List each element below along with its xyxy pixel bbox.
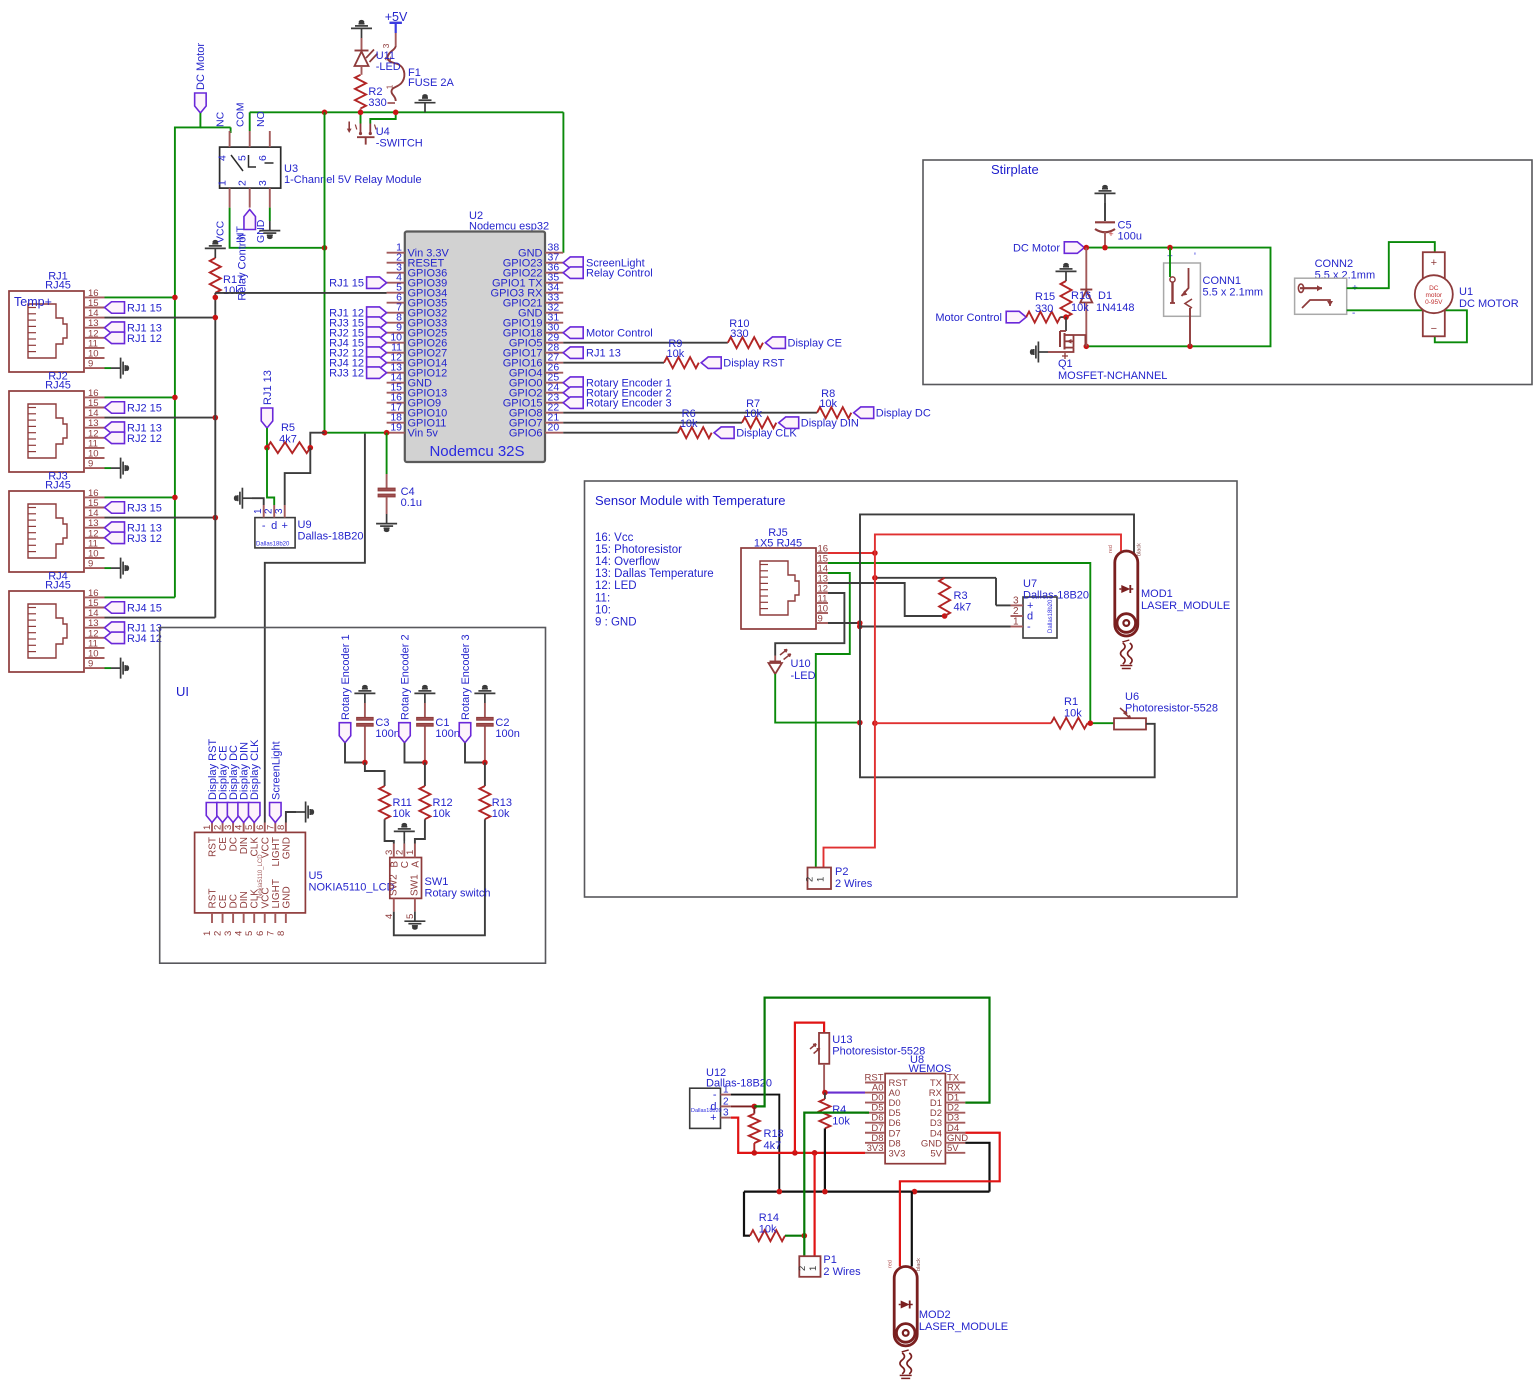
svg-text:2 Wires: 2 Wires bbox=[823, 1266, 861, 1278]
svg-text:U10: U10 bbox=[791, 658, 811, 670]
svg-text:R18: R18 bbox=[764, 1128, 784, 1140]
net label Display CE bbox=[765, 337, 842, 350]
wire bbox=[105, 496, 175, 498]
svg-text:-LED: -LED bbox=[376, 61, 401, 73]
svg-text:10k: 10k bbox=[223, 285, 241, 297]
svg-text:+: + bbox=[1108, 229, 1113, 239]
capacitor C1 bbox=[417, 703, 460, 763]
svg-text:RJ45: RJ45 bbox=[45, 480, 71, 492]
wire bbox=[105, 417, 216, 419]
svg-text:RJ3 15: RJ3 15 bbox=[127, 503, 162, 515]
svg-text:2: 2 bbox=[237, 180, 249, 186]
ground bbox=[296, 802, 313, 823]
svg-text:RJ2 12: RJ2 12 bbox=[127, 433, 162, 445]
svg-text:Display CLK: Display CLK bbox=[736, 428, 797, 440]
svg-text:6: 6 bbox=[257, 155, 269, 161]
net label Display DC bbox=[227, 745, 240, 823]
svg-text:3: 3 bbox=[384, 850, 395, 855]
junction bbox=[777, 1189, 918, 1195]
net label RJ3 15 bbox=[329, 317, 386, 330]
junction bbox=[1063, 314, 1069, 320]
wire bbox=[484, 763, 486, 787]
net label Rotary Encoder 2 bbox=[399, 634, 412, 742]
wire bbox=[105, 467, 112, 469]
net label Display CLK bbox=[248, 739, 261, 823]
svg-text:Rotary Encoder 3: Rotary Encoder 3 bbox=[460, 634, 472, 720]
svg-text:1: 1 bbox=[202, 825, 213, 830]
svg-text:10k: 10k bbox=[393, 808, 411, 820]
svg-text:SW1: SW1 bbox=[425, 876, 449, 888]
svg-text:6: 6 bbox=[255, 931, 266, 936]
power flag +5V bbox=[385, 10, 408, 33]
net label Display CLK bbox=[714, 427, 797, 440]
svg-text:Sensor Module with Temperature: Sensor Module with Temperature bbox=[595, 493, 786, 508]
junction bbox=[322, 245, 328, 251]
ground bbox=[111, 458, 128, 479]
svg-text:NOKIA5110_LCD: NOKIA5110_LCD bbox=[309, 882, 395, 894]
wire bbox=[824, 534, 1122, 867]
wire bbox=[824, 1128, 826, 1191]
svg-text:CLK: CLK bbox=[250, 837, 261, 857]
svg-text:10k: 10k bbox=[433, 808, 451, 820]
wire bbox=[563, 342, 728, 344]
svg-text:+: + bbox=[1431, 257, 1437, 269]
svg-text:DC Motor: DC Motor bbox=[195, 43, 207, 90]
wire bbox=[563, 362, 664, 364]
MCU U2 Nodemcu esp32 bbox=[387, 210, 564, 462]
net label RJ4 12 bbox=[329, 357, 386, 370]
svg-text:3: 3 bbox=[381, 43, 391, 48]
svg-text:16: Vcc: 16: Vcc bbox=[595, 532, 634, 544]
junction bbox=[422, 760, 428, 766]
svg-text:R15: R15 bbox=[1035, 291, 1055, 303]
svg-text:motor: motor bbox=[1425, 292, 1442, 299]
svg-text:330: 330 bbox=[368, 97, 386, 109]
junction bbox=[1088, 720, 1094, 726]
svg-text:U1: U1 bbox=[1459, 286, 1473, 298]
wire bbox=[731, 1095, 780, 1192]
svg-text:DC MOTOR: DC MOTOR bbox=[1459, 298, 1519, 310]
svg-text:2: 2 bbox=[805, 877, 816, 882]
LCD U5 NOKIA5110_LCD bbox=[195, 823, 395, 937]
net label RJ2 12 bbox=[105, 432, 162, 445]
svg-text:1N4148: 1N4148 bbox=[1096, 302, 1135, 314]
svg-text:FUSE 2A: FUSE 2A bbox=[408, 77, 455, 89]
svg-text:RST: RST bbox=[208, 889, 219, 909]
svg-text:DC: DC bbox=[1429, 285, 1439, 292]
svg-text:2: 2 bbox=[394, 850, 405, 855]
wire bbox=[105, 567, 112, 569]
resistor R16 bbox=[1061, 281, 1092, 317]
legend pin map bbox=[595, 532, 714, 628]
svg-text:6: 6 bbox=[255, 825, 266, 830]
wire bbox=[744, 1192, 750, 1236]
svg-text:R5: R5 bbox=[281, 422, 295, 434]
photoresistor U6 bbox=[1114, 691, 1218, 730]
net label RJ1 15 bbox=[329, 277, 386, 290]
svg-text:2: 2 bbox=[213, 931, 224, 936]
svg-text:Nokia5110_LCD: Nokia5110_LCD bbox=[258, 854, 264, 898]
RJ45 connector RJ3 bbox=[9, 471, 105, 573]
svg-text:Motor Control: Motor Control bbox=[935, 312, 1002, 324]
connector P2 2 Wires bbox=[805, 866, 873, 890]
resistor R14 bbox=[750, 1212, 785, 1241]
svg-text:9: 9 bbox=[818, 614, 823, 625]
wire bbox=[105, 296, 175, 298]
svg-text:Dallas-18B20: Dallas-18B20 bbox=[298, 531, 364, 543]
svg-text:100n: 100n bbox=[435, 728, 459, 740]
svg-text:9: 9 bbox=[88, 559, 93, 570]
net label Relay Control bbox=[237, 210, 256, 301]
label Temp+ bbox=[14, 295, 52, 309]
net label RJ1 13 bbox=[105, 522, 162, 535]
resistor R10 bbox=[728, 318, 763, 348]
ground bbox=[404, 912, 425, 929]
net label RJ2 15 bbox=[105, 402, 162, 415]
svg-text:COM: COM bbox=[235, 102, 247, 127]
wire D5 net bbox=[804, 1113, 869, 1257]
section box Sensor Module with Temperature bbox=[585, 481, 1238, 897]
svg-text:RJ1 13: RJ1 13 bbox=[586, 348, 621, 360]
wire bbox=[403, 841, 405, 844]
junction bbox=[172, 495, 178, 501]
svg-text:3V3: 3V3 bbox=[867, 1143, 884, 1154]
svg-text:15: Photoresistor: 15: Photoresistor bbox=[595, 544, 682, 556]
svg-text:5.5 x 2.1mm: 5.5 x 2.1mm bbox=[1315, 270, 1376, 282]
wire bbox=[813, 1153, 815, 1256]
svg-text:RJ2 15: RJ2 15 bbox=[127, 403, 162, 415]
ground bbox=[111, 658, 128, 679]
ground bbox=[111, 558, 128, 579]
svg-text:9: 9 bbox=[88, 459, 93, 470]
temperature sensor U7 Dallas-18B20 bbox=[1011, 578, 1090, 638]
svg-text:13: Dallas Temperature: 13: Dallas Temperature bbox=[595, 568, 714, 580]
net label Display DIN bbox=[779, 417, 859, 430]
svg-text:Rotary Encoder 2: Rotary Encoder 2 bbox=[400, 634, 412, 720]
wire bbox=[731, 1105, 755, 1107]
svg-text:1: 1 bbox=[385, 84, 395, 89]
svg-text:12: LED: 12: LED bbox=[595, 580, 637, 592]
net label Rotary Encoder 1 bbox=[563, 377, 671, 390]
wire bbox=[105, 667, 112, 669]
svg-text:MOD2: MOD2 bbox=[919, 1309, 951, 1321]
motor U1 DC MOTOR bbox=[1415, 252, 1519, 336]
wire bbox=[252, 498, 264, 505]
resistor R4 bbox=[819, 1093, 850, 1129]
wire bbox=[385, 819, 394, 843]
svg-text:330: 330 bbox=[730, 328, 748, 340]
svg-text:14: Overflow: 14: Overflow bbox=[595, 556, 660, 568]
section box UI bbox=[160, 628, 546, 964]
svg-text:CONN2: CONN2 bbox=[1315, 258, 1354, 270]
svg-text:2: 2 bbox=[723, 1096, 729, 1107]
net label ScreenLight bbox=[563, 257, 645, 270]
wire bbox=[345, 743, 365, 763]
ground bbox=[394, 824, 415, 841]
net label RJ4 15 bbox=[105, 602, 162, 615]
net label Display RST bbox=[206, 739, 219, 823]
svg-text:1-Channel 5V Relay Module: 1-Channel 5V Relay Module bbox=[284, 174, 422, 186]
junction bbox=[362, 760, 368, 766]
junction bbox=[213, 515, 219, 521]
net label Display DIN bbox=[238, 742, 251, 823]
svg-text:RJ1 12: RJ1 12 bbox=[127, 333, 162, 345]
net label RJ1 15 bbox=[105, 302, 162, 315]
net label Display CE bbox=[217, 746, 230, 823]
svg-text:P1: P1 bbox=[823, 1254, 836, 1266]
svg-text:3: 3 bbox=[723, 1108, 729, 1119]
ground bbox=[1056, 264, 1077, 281]
wire bbox=[828, 563, 1090, 723]
RJ45 connector RJ5 bbox=[741, 527, 828, 629]
svg-text:red: red bbox=[1108, 545, 1114, 553]
svg-text:7: 7 bbox=[265, 825, 276, 830]
svg-text:−: − bbox=[1431, 323, 1437, 335]
svg-text:SW1: SW1 bbox=[410, 874, 421, 896]
net label RJ1 13 bbox=[261, 370, 274, 428]
svg-text:RJ45: RJ45 bbox=[45, 580, 71, 592]
ground bbox=[354, 686, 375, 703]
wire relay VCC bbox=[230, 208, 325, 248]
wire bbox=[828, 552, 875, 554]
svg-text:U13: U13 bbox=[832, 1034, 852, 1046]
svg-text:RJ3 12: RJ3 12 bbox=[127, 533, 162, 545]
svg-text:U6: U6 bbox=[1125, 691, 1139, 703]
photoresistor U13 bbox=[795, 1023, 925, 1153]
wire bbox=[424, 763, 426, 787]
svg-text:9 : GND: 9 : GND bbox=[595, 616, 637, 628]
ground bbox=[1031, 342, 1048, 363]
resistor R13 bbox=[479, 786, 512, 820]
svg-text:1: 1 bbox=[253, 508, 264, 514]
wire bbox=[775, 593, 844, 656]
svg-text:DIN: DIN bbox=[239, 837, 250, 854]
net label Motor Control bbox=[935, 311, 1026, 324]
resistor R8 bbox=[817, 388, 851, 418]
svg-text:RJ45: RJ45 bbox=[45, 380, 71, 392]
wire vcc node bbox=[875, 578, 1011, 606]
section box Stirplate bbox=[923, 160, 1532, 385]
svg-text:red: red bbox=[888, 1260, 894, 1268]
svg-text:2: 2 bbox=[797, 1266, 808, 1271]
ground bbox=[415, 95, 436, 112]
wire VCC drop to LCD bbox=[265, 434, 365, 823]
junction bbox=[264, 445, 313, 451]
svg-text:-: - bbox=[713, 1089, 717, 1101]
wire D1 net bbox=[754, 998, 989, 1107]
svg-text:U9: U9 bbox=[298, 519, 312, 531]
wire bbox=[394, 819, 485, 935]
wire bbox=[1060, 316, 1066, 318]
svg-text:R14: R14 bbox=[759, 1212, 779, 1224]
svg-text:2: 2 bbox=[1013, 606, 1019, 617]
wire bbox=[105, 396, 175, 398]
svg-text:10k: 10k bbox=[492, 808, 510, 820]
svg-text:LIGHT: LIGHT bbox=[271, 879, 282, 908]
svg-text:+: + bbox=[281, 520, 287, 532]
net label RJ1 13 bbox=[105, 622, 162, 635]
wire bbox=[465, 743, 485, 763]
wire bbox=[365, 763, 385, 787]
net label DC Motor bbox=[1013, 242, 1084, 255]
LED U11 bbox=[355, 38, 401, 73]
wire relay COM to rail bbox=[249, 112, 251, 131]
junction bbox=[752, 1104, 758, 1110]
svg-text:RJ1 15: RJ1 15 bbox=[127, 303, 162, 315]
svg-text:100u: 100u bbox=[1118, 231, 1142, 243]
svg-text:NC: NC bbox=[215, 111, 227, 127]
net label RJ1 12 bbox=[329, 307, 386, 320]
svg-text:10k: 10k bbox=[1064, 708, 1082, 720]
svg-text:SW2: SW2 bbox=[389, 874, 400, 896]
svg-text:4: 4 bbox=[217, 155, 229, 161]
svg-text:10k: 10k bbox=[744, 408, 762, 420]
wire Vin5v bbox=[325, 432, 387, 434]
capacitor C2 bbox=[477, 703, 520, 763]
resistor R3 bbox=[939, 578, 971, 616]
svg-text:8: 8 bbox=[276, 931, 287, 936]
svg-text:3: 3 bbox=[257, 180, 269, 186]
svg-text:Dallas18b20: Dallas18b20 bbox=[256, 542, 290, 548]
net label ScreenLight bbox=[270, 741, 283, 822]
svg-text:VCC: VCC bbox=[215, 220, 227, 243]
svg-text:black: black bbox=[916, 1258, 922, 1271]
svg-text:3: 3 bbox=[223, 931, 234, 936]
svg-text:LASER_MODULE: LASER_MODULE bbox=[919, 1321, 1008, 1333]
svg-text:Motor Control: Motor Control bbox=[586, 328, 653, 340]
svg-text:5V: 5V bbox=[947, 1143, 959, 1154]
svg-text:Display CLK: Display CLK bbox=[249, 739, 261, 800]
resistor R2 bbox=[355, 75, 387, 109]
relay module U3 bbox=[215, 102, 422, 243]
junction bbox=[172, 295, 178, 301]
wire bbox=[105, 317, 216, 319]
svg-text:1: 1 bbox=[1013, 617, 1019, 628]
svg-text:U4: U4 bbox=[376, 126, 390, 138]
svg-text:5V: 5V bbox=[930, 1148, 942, 1159]
svg-text:0.1u: 0.1u bbox=[401, 497, 422, 509]
svg-text:-LED: -LED bbox=[791, 670, 816, 682]
svg-text:d: d bbox=[271, 520, 277, 532]
wire bbox=[785, 1235, 804, 1237]
MCU U8 WEMOS bbox=[865, 1054, 969, 1164]
wire bbox=[563, 422, 742, 424]
junction bbox=[172, 395, 178, 401]
junction bbox=[822, 1090, 828, 1096]
svg-text:Temp+: Temp+ bbox=[14, 295, 52, 309]
junction bbox=[322, 430, 390, 436]
wire bbox=[395, 33, 397, 46]
svg-text:MOSFET-NCHANNEL: MOSFET-NCHANNEL bbox=[1058, 370, 1167, 382]
svg-text:R16: R16 bbox=[1071, 290, 1091, 302]
svg-text:Photoresistor-5528: Photoresistor-5528 bbox=[832, 1046, 925, 1058]
resistor R17 bbox=[210, 258, 243, 297]
svg-text:DC: DC bbox=[229, 894, 240, 908]
ground bbox=[111, 358, 128, 379]
net label RJ3 12 bbox=[105, 532, 162, 545]
net label Display RST bbox=[701, 357, 785, 370]
svg-text:UI: UI bbox=[176, 684, 189, 699]
wire bbox=[1347, 242, 1435, 288]
net label RJ3 12 bbox=[329, 367, 386, 380]
wire bbox=[405, 743, 425, 763]
junction bbox=[213, 415, 219, 421]
svg-text:B: B bbox=[389, 861, 400, 868]
RJ45 connector RJ4 bbox=[9, 571, 105, 673]
svg-text:DC Motor: DC Motor bbox=[1013, 243, 1060, 255]
wire bbox=[386, 433, 388, 474]
junction bbox=[857, 720, 878, 726]
svg-text:5: 5 bbox=[244, 825, 255, 830]
svg-text:8: 8 bbox=[276, 825, 287, 830]
svg-text:Display RST: Display RST bbox=[723, 358, 784, 370]
MOSFET Q1 bbox=[1048, 317, 1167, 382]
junction bbox=[872, 550, 947, 619]
svg-text:4k7: 4k7 bbox=[954, 602, 972, 614]
wire A0 net bbox=[824, 1064, 865, 1093]
wire bbox=[310, 433, 324, 448]
svg-text:5.5 x 2.1mm: 5.5 x 2.1mm bbox=[1203, 287, 1264, 299]
wire overflow bus bbox=[214, 293, 216, 618]
RJ45 connector RJ1 bbox=[9, 271, 105, 373]
svg-text:RJ45: RJ45 bbox=[45, 280, 71, 292]
wire bbox=[1088, 722, 1115, 724]
wire bbox=[875, 722, 1051, 724]
rotary switch SW1 bbox=[384, 844, 491, 920]
ground bbox=[351, 21, 372, 38]
svg-text:C: C bbox=[400, 861, 411, 868]
laser module MOD1 bbox=[1108, 543, 1230, 669]
ground bbox=[414, 686, 435, 703]
svg-text:2 Wires: 2 Wires bbox=[835, 878, 873, 890]
svg-text:10:: 10: bbox=[595, 604, 611, 616]
svg-text:1: 1 bbox=[808, 1266, 819, 1271]
net label RJ1 13 bbox=[105, 422, 162, 435]
svg-text:4k7: 4k7 bbox=[279, 434, 297, 446]
wire bbox=[267, 448, 274, 505]
svg-text:3V3: 3V3 bbox=[889, 1148, 906, 1159]
ground bbox=[235, 488, 252, 509]
net label Rotary Encoder 3 bbox=[459, 634, 472, 742]
svg-text:Vin 5v: Vin 5v bbox=[408, 428, 439, 440]
svg-text:MOD1: MOD1 bbox=[1141, 588, 1173, 600]
svg-text:100n: 100n bbox=[495, 728, 519, 740]
svg-text:GPIO6: GPIO6 bbox=[509, 428, 543, 440]
junction bbox=[482, 760, 488, 766]
svg-text:4: 4 bbox=[234, 931, 245, 936]
resistor R7 bbox=[742, 398, 776, 428]
svg-text:GND: GND bbox=[281, 837, 292, 859]
barrel jack CONN2 bbox=[1295, 258, 1376, 319]
wire bbox=[828, 583, 945, 616]
svg-text:U7: U7 bbox=[1023, 578, 1037, 590]
capacitor C5 bbox=[1095, 203, 1142, 248]
junction bbox=[857, 620, 863, 629]
net label Rotary Encoder 2 bbox=[563, 387, 671, 400]
resistor R6 bbox=[678, 408, 712, 438]
svg-text:1: 1 bbox=[202, 931, 213, 936]
svg-text:RJ3 12: RJ3 12 bbox=[329, 368, 364, 380]
net label RJ2 12 bbox=[329, 347, 386, 360]
capacitor C4 bbox=[378, 474, 422, 514]
svg-text:4: 4 bbox=[234, 825, 245, 830]
svg-text:Display DC: Display DC bbox=[876, 408, 931, 420]
resistor R11 bbox=[379, 786, 412, 820]
net label Relay Control bbox=[563, 267, 652, 280]
svg-text:19: 19 bbox=[390, 422, 402, 434]
net label RJ1 12 bbox=[105, 332, 162, 345]
svg-text:11:: 11: bbox=[595, 592, 610, 604]
